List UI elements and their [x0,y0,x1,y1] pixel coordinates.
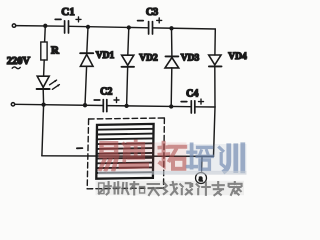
grid mesh wires [97,129,154,173]
AC tilde [12,67,20,69]
watermark logo big red text [100,141,185,170]
svg-text:VD3: VD3 [181,53,200,63]
resistor R [41,42,47,60]
LED indicator [37,76,60,89]
watermark small gray text [99,182,242,195]
char xian [164,182,178,195]
svg-text:VD4: VD4 [228,52,247,62]
char tian [148,184,159,195]
wire R top [44,26,47,42]
glyph tuo [159,143,185,169]
diode VD3 [165,28,199,106]
char ji [197,182,210,194]
svg-text:VD2: VD2 [139,54,158,64]
node junction top VD3 [169,26,173,30]
glyph di [122,141,146,166]
glyph yi [100,143,117,170]
svg-text:C4: C4 [186,89,198,100]
wire LED to bottom rail [42,90,44,105]
capacitor C2 [94,87,119,112]
svg-text:VD1: VD1 [96,51,115,61]
watermark reflection band [98,171,247,175]
node junction bottom VD1 [83,103,87,107]
capacitor C3 [138,7,162,34]
node junction top VD2 [127,25,131,29]
watermark logo big blue text [188,144,243,171]
node junction top VD1 [86,25,90,29]
svg-text:220V: 220V [7,56,31,67]
diode VD2 [122,28,158,106]
node junction top R [43,24,47,28]
wire left side down [42,105,44,156]
char pin [114,182,129,194]
char she [99,182,111,194]
wire R to LED [43,60,46,76]
diode VD4 [209,29,247,107]
terminal top-left [12,24,15,27]
char he [131,182,145,194]
node junction bottom LED [41,102,45,106]
diode VD1 [80,27,114,105]
node junction bottom VD2 [124,104,128,108]
grid electrode frame [96,124,153,179]
glyph pei [188,144,213,169]
char jia [229,182,242,195]
glyph xun [219,145,242,171]
wire right side down [214,107,216,156]
wire top rail [16,26,216,29]
dashed enclosure box [87,118,164,189]
svg-text:C1: C1 [61,6,74,18]
svg-text:C2: C2 [100,87,112,98]
svg-text:C3: C3 [146,7,158,18]
svg-text:R: R [51,45,60,57]
char she2 [180,183,192,194]
wire bottom rail [15,104,215,107]
node label circled-a [196,173,207,184]
capacitor C1 [55,6,81,33]
label minus grid [77,147,83,149]
node junction bottom VD3 [169,104,173,108]
watermark tint underlays [99,142,187,170]
terminal bottom-left [11,103,14,106]
wire bottom horizontal [42,155,214,158]
char zhuan [213,182,224,195]
wire to electrode label [201,157,203,173]
capacitor C4 [181,89,203,113]
